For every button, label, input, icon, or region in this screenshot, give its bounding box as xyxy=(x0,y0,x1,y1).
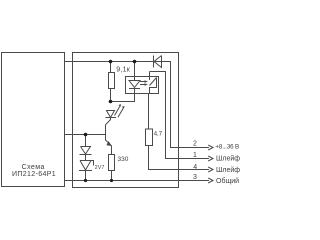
svg-text:Шлейф: Шлейф xyxy=(216,166,240,174)
svg-text:330: 330 xyxy=(118,156,129,163)
svg-text:2: 2 xyxy=(193,141,197,148)
svg-text:4,7: 4,7 xyxy=(154,132,163,138)
svg-text:+8...36 В: +8...36 В xyxy=(215,143,239,150)
svg-text:9,1к: 9,1к xyxy=(116,67,130,74)
svg-text:Шлейф: Шлейф xyxy=(216,155,240,163)
svg-text:ИП212-64Р1: ИП212-64Р1 xyxy=(12,171,56,178)
svg-text:4: 4 xyxy=(193,164,197,171)
svg-text:2V7: 2V7 xyxy=(95,165,105,171)
svg-text:3: 3 xyxy=(193,174,197,181)
svg-text:Схема: Схема xyxy=(22,164,45,171)
svg-text:Общий: Общий xyxy=(216,177,239,185)
svg-text:1: 1 xyxy=(193,152,197,159)
